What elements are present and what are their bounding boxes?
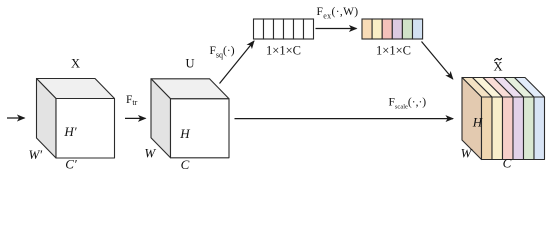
svg-text:W: W [461,146,473,161]
svg-text:Fscale(·,·): Fscale(·,·) [389,96,427,110]
svg-text:1×1×C: 1×1×C [376,43,411,57]
svg-text:H: H [472,115,483,130]
svg-text:H: H [179,126,190,141]
svg-text:W: W [144,145,156,160]
svg-text:Ftr: Ftr [126,94,138,107]
svg-text:Fex(·,W): Fex(·,W) [317,6,359,21]
svg-text:C: C [181,157,190,172]
svg-text:W′: W′ [28,147,42,162]
svg-text:C: C [503,156,512,171]
svg-text:U: U [185,56,194,70]
svg-text:C′: C′ [65,157,77,172]
svg-text:X: X [493,60,502,74]
svg-text:H′: H′ [63,124,76,139]
svg-text:X: X [71,56,80,70]
svg-text:1×1×C: 1×1×C [266,43,301,57]
svg-text:Fsq(·): Fsq(·) [210,45,235,60]
